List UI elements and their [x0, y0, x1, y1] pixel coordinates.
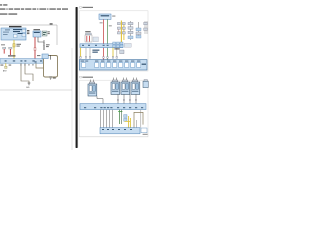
wire RW2 green	[107, 19, 109, 59]
connector tick pairs above band	[117, 99, 137, 100]
connector band M02 joint boxes row 2	[113, 45, 123, 47]
connector band M02 joint boxes row 1	[113, 42, 123, 44]
speaker SP1 cells	[89, 86, 92, 92]
left figure label 1	[50, 23, 53, 25]
battery box B1	[99, 14, 111, 19]
wire RW7 gray	[116, 48, 118, 58]
speaker SP3 body	[121, 82, 130, 94]
wire W3 dark with jog	[38, 37, 44, 50]
wire BW1 below band	[100, 110, 102, 128]
head unit U1 inner cell 2	[22, 29, 26, 32]
panel divider soft edge right	[77, 8, 80, 148]
amplifier big box A1	[79, 60, 147, 70]
joint boxes JB2	[124, 118, 127, 121]
amplifier pin cells	[82, 63, 141, 68]
wire W2 label above band	[37, 54, 40, 57]
relay ladder 1 yellow wire	[120, 21, 122, 43]
head unit U1 inner cell 3	[22, 34, 26, 37]
wire RW8 gray with box	[120, 50, 124, 54]
wire W4 tick	[43, 44, 45, 45]
connector band M01 pin marks	[5, 60, 42, 62]
bottom label box	[141, 128, 147, 133]
joint connector box J1	[42, 54, 48, 59]
wire BW2	[103, 110, 105, 128]
panel divider	[76, 7, 78, 148]
wire RW6 yellow	[112, 48, 114, 58]
antenna joint box	[5, 66, 7, 68]
fuse block F3 red element 2	[88, 36, 90, 42]
left page right edge	[71, 48, 73, 150]
relay ladder 4 wires	[145, 21, 147, 34]
wire BW6 green	[118, 110, 120, 124]
wire BW8 yellow	[128, 116, 130, 128]
ground wire loop GW2	[25, 63, 33, 81]
wire SW1 jog to band	[97, 96, 103, 103]
wire RW1 red	[103, 19, 105, 59]
tweeter SP5	[143, 81, 148, 87]
header breadcrumb line 3	[0, 13, 17, 14]
wire SW2	[117, 94, 119, 103]
wire RW4 gray	[85, 48, 87, 58]
wire BW5	[112, 110, 114, 128]
head unit U1 inner cell	[14, 34, 18, 38]
tweeter SP5 cap	[144, 80, 147, 82]
relay ladder 1	[117, 22, 125, 34]
band stub ticks	[20, 64, 21, 65]
wire W1 label	[16, 44, 21, 47]
speaker SP1 ticks above	[91, 80, 94, 82]
left figure bottom border	[0, 89, 72, 91]
speaker SP4 cells	[132, 84, 135, 90]
wire W2 red vertical	[34, 37, 36, 59]
left figure border	[0, 25, 57, 45]
wire BW7 dark	[120, 110, 122, 124]
speaker SP1 cap	[89, 82, 94, 84]
connector band M02	[80, 44, 123, 48]
panel divider soft edge left	[74, 8, 77, 148]
speaker SP3 ticks above	[124, 78, 127, 80]
fig2 bottom note	[143, 133, 148, 136]
wire SW3	[123, 94, 125, 103]
wire RW1 label	[100, 21, 103, 24]
amplifier label	[142, 64, 146, 65]
text note right	[48, 30, 50, 33]
speaker SP2 cap	[112, 80, 117, 82]
wire RW5 gray	[89, 48, 91, 58]
relay ladder 3 wire	[137, 22, 139, 38]
head unit U1	[1, 28, 26, 40]
speaker SP2 cells	[112, 84, 115, 90]
shield wire big loop	[44, 56, 58, 78]
joint boxes JB1	[124, 115, 127, 118]
connector band M02 pin marks	[82, 45, 109, 46]
speaker SP4 ticks above	[134, 78, 137, 80]
fuse block label	[93, 37, 98, 42]
relay box K1	[42, 31, 47, 36]
shield loop right page	[134, 112, 143, 128]
speaker SP1 body	[88, 84, 97, 96]
speaker SP2 body	[111, 82, 120, 94]
relay ladder 1 yellow wire 2	[123, 24, 125, 40]
speaker SP3 cap	[122, 80, 127, 82]
wire W1 yellow head unit down	[13, 40, 15, 59]
fuse label	[1, 44, 16, 56]
wire RW2 label	[109, 24, 112, 27]
wire BW3	[106, 110, 108, 128]
header breadcrumb line 1	[0, 4, 7, 5]
wire SW4	[129, 94, 131, 103]
fig1 frame	[79, 11, 148, 71]
bottom amp box A2	[100, 128, 140, 134]
below band text bits	[0, 64, 3, 67]
head unit U1 title	[9, 26, 22, 27]
ignition block U2 title	[34, 29, 41, 30]
connector band M01	[0, 59, 43, 64]
ignition block U2 text	[34, 32, 40, 33]
battery box B1 text	[101, 15, 110, 16]
head unit U1 pin text rows	[3, 29, 23, 35]
speaker SP4 body	[131, 82, 140, 94]
shield loop inner wire	[136, 120, 138, 128]
net label dark	[92, 50, 99, 53]
svg-text:G05: G05	[26, 87, 29, 89]
wire W4 label	[46, 44, 50, 47]
shield ground G2	[49, 77, 52, 79]
fuse F1 cap	[3, 47, 6, 49]
wire W5 yellow below band	[5, 63, 7, 68]
connector band M03	[80, 104, 146, 110]
speaker SP3 label	[122, 90, 128, 93]
battery label right	[112, 15, 115, 18]
relay ladder 2 wire	[129, 21, 131, 40]
wire RW3 yellow below band	[80, 48, 82, 58]
wire BW9 yellow	[129, 118, 131, 128]
fig2 frame	[79, 80, 148, 137]
ignition block U2	[33, 31, 41, 37]
relay ladder 3	[136, 28, 141, 38]
wire BW4	[109, 110, 111, 128]
relay box K1 marks	[43, 31, 46, 34]
speaker SP4 cap	[132, 80, 137, 82]
wire RW7 label	[114, 48, 119, 49]
fuse block F3 body	[85, 35, 92, 42]
speaker SP1 label	[89, 92, 95, 95]
connector band M03 pin marks	[84, 107, 143, 108]
fuse block F3 title	[85, 31, 90, 32]
ground wire loop GW1	[21, 63, 29, 83]
wire W4 dark vertical	[43, 40, 45, 50]
bottom amp box marks	[102, 129, 132, 130]
fuse block F3 cap	[86, 33, 92, 35]
speaker SP4 label	[132, 90, 138, 93]
fuse F1 red element	[3, 49, 5, 54]
wire SW5	[135, 94, 137, 103]
connector band M02 label	[124, 43, 131, 47]
header breadcrumb line 2	[0, 8, 68, 9]
relay ladder 2	[128, 22, 133, 38]
right page fig2 header	[80, 76, 82, 78]
wire BW6 green tick	[118, 111, 122, 113]
relay ladder 4	[144, 22, 148, 30]
speaker SP2 ticks above	[114, 78, 117, 80]
node label column	[27, 30, 29, 34]
fuse block F3 red element 1	[86, 36, 88, 42]
amplifier inner text row	[81, 60, 141, 63]
speaker SP2 label	[112, 90, 118, 93]
speaker SP3 cells	[122, 84, 125, 90]
wire W1 connector box	[13, 44, 15, 47]
right page fig1 header	[80, 6, 82, 8]
shield entry tick	[50, 55, 52, 60]
fuse F2 cap	[9, 47, 12, 49]
shield wire stub from band	[36, 63, 44, 68]
fuse F2 red element	[9, 49, 11, 55]
relay ladder 1 pink tick	[118, 28, 120, 34]
fig2 bottom border	[79, 136, 148, 138]
wire W2 connector tick	[34, 48, 36, 51]
yellow jog tick	[125, 120, 131, 122]
ground G1	[28, 83, 31, 85]
wire BW10 gray right	[140, 110, 142, 128]
shield ground label	[53, 77, 56, 80]
below band caps	[80, 57, 118, 59]
